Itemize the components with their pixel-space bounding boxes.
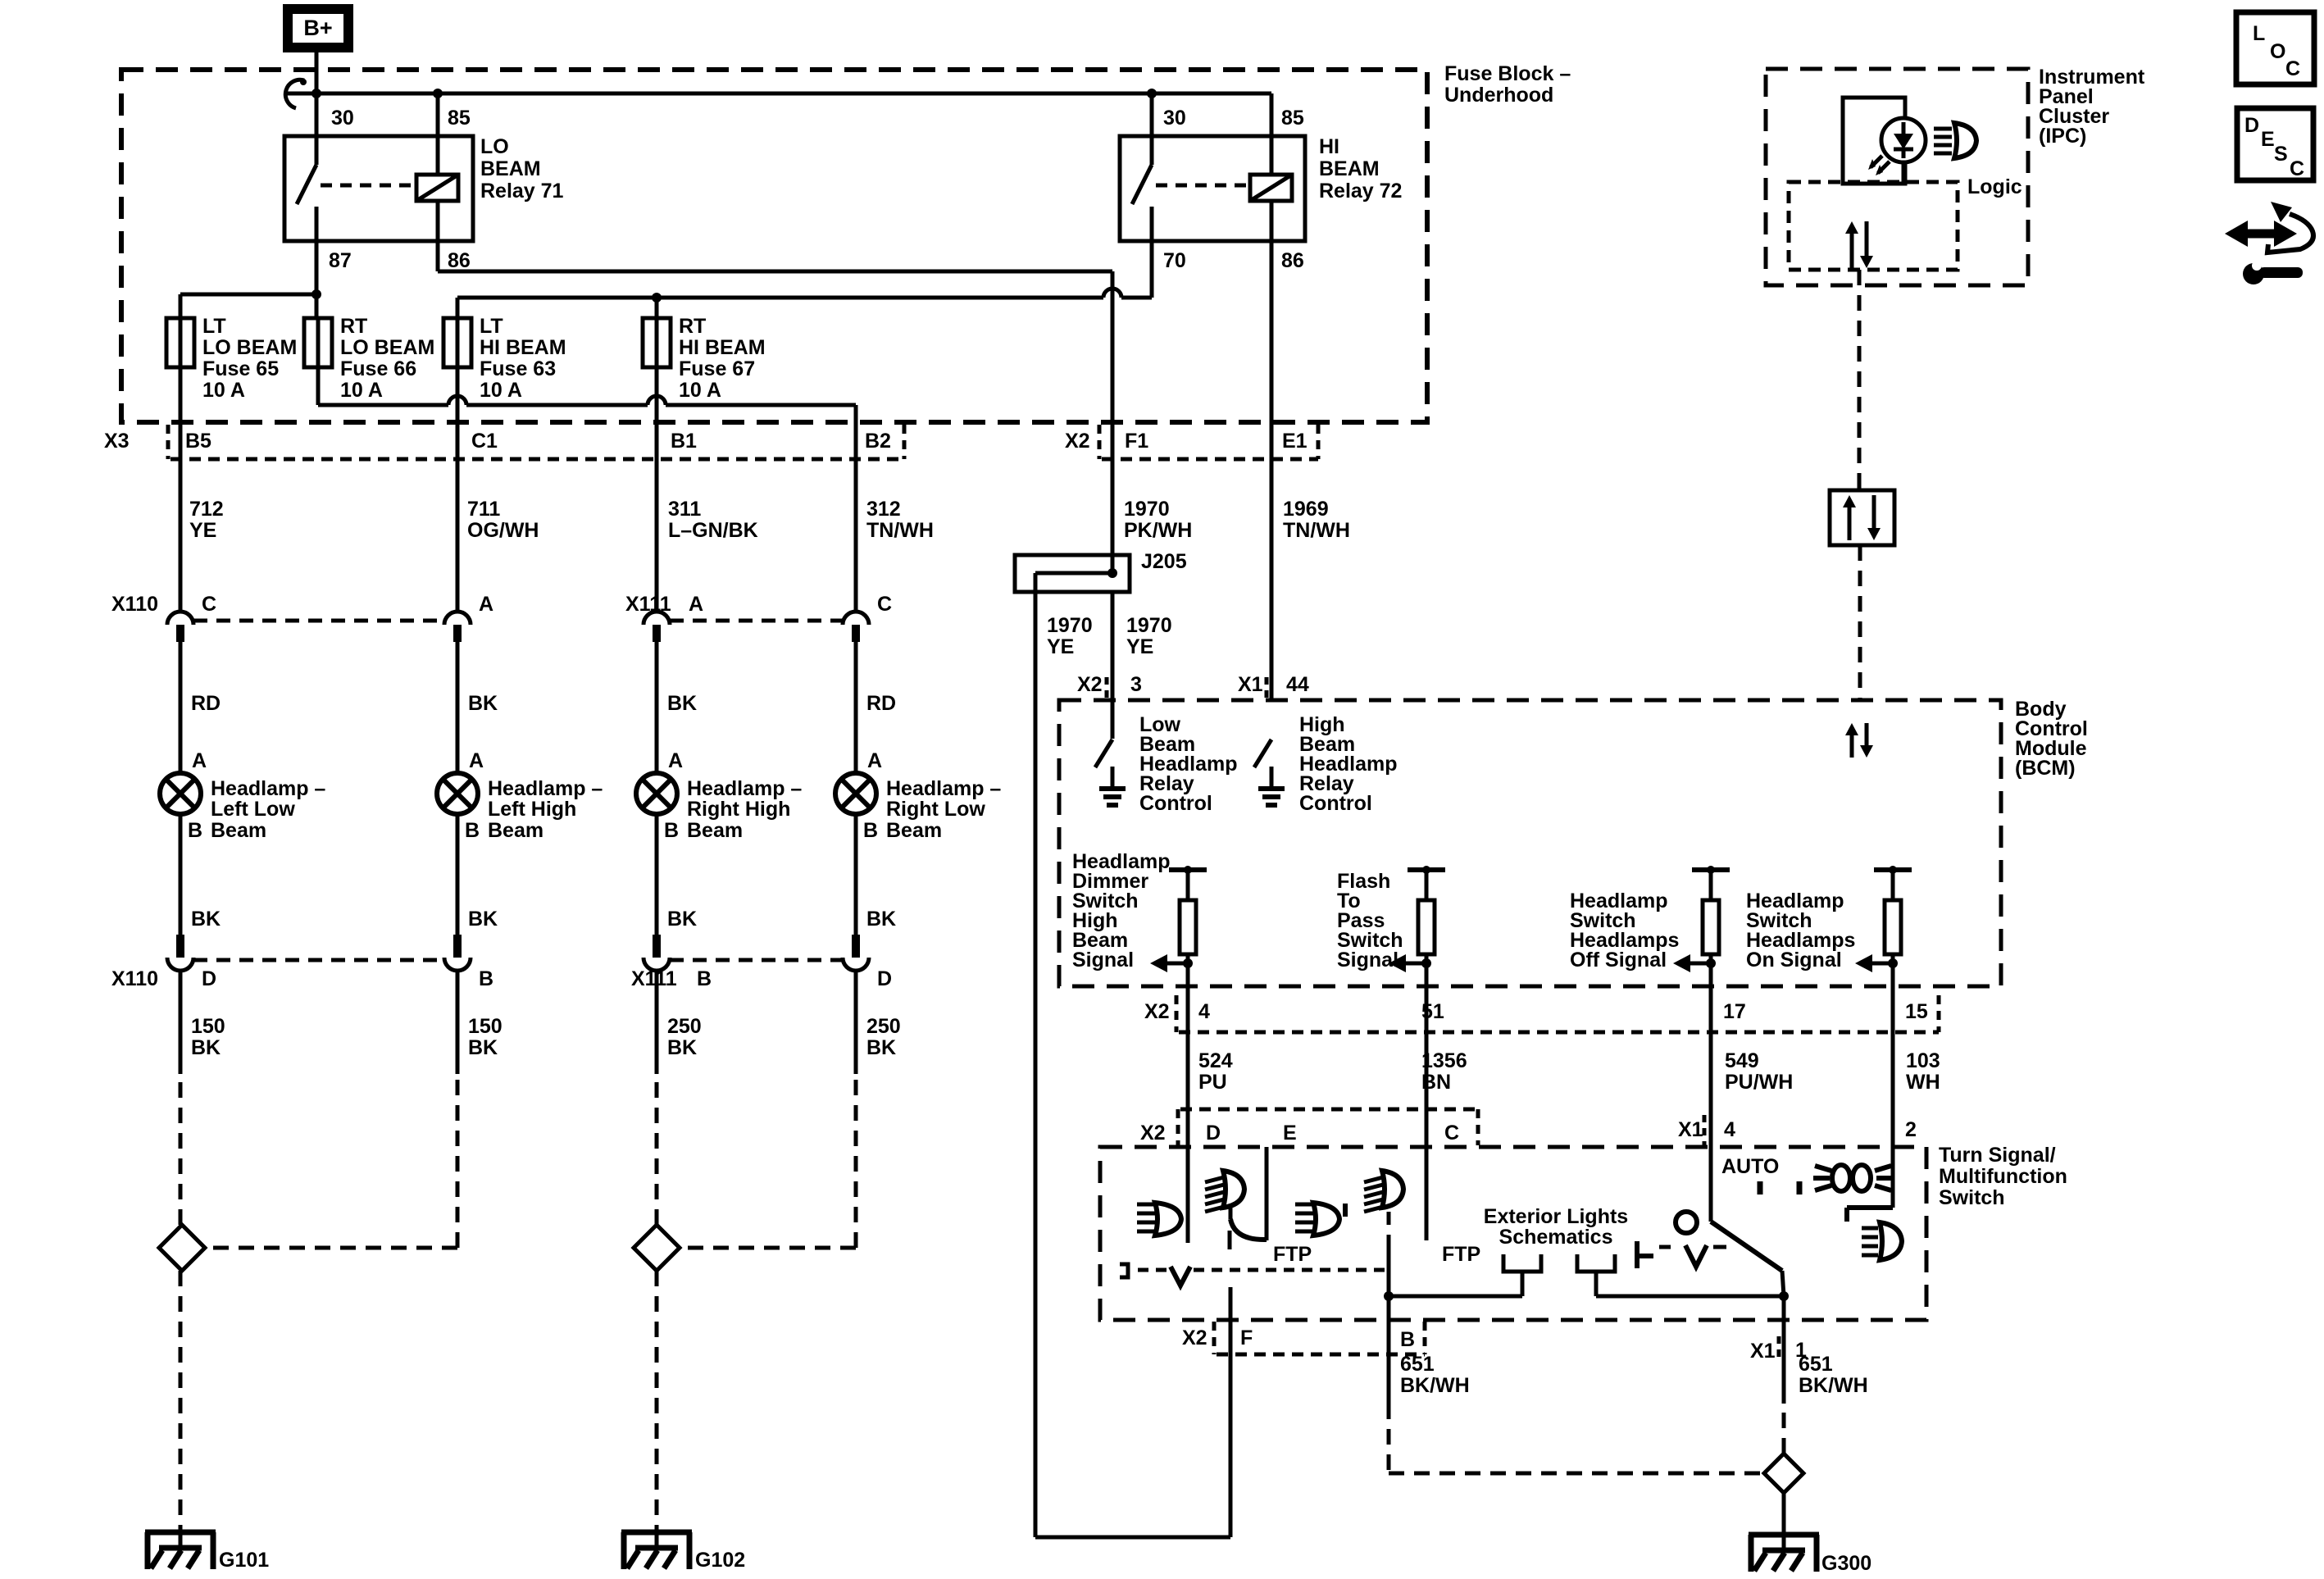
circuit label 311 L-GN/BK <box>668 498 758 542</box>
legend box DESC <box>2237 108 2313 180</box>
circuit label 1969 TN/WH <box>1283 498 1350 542</box>
svg-text:Beam: Beam <box>211 819 266 842</box>
wire relay 71 pin 87 to low beam fuses <box>180 241 321 318</box>
BCM pull-up resistor: headlamp dimmer high beam signal <box>1150 866 1207 972</box>
svg-text:Control: Control <box>1139 792 1212 815</box>
dimmer switch contact line <box>1138 1268 1385 1272</box>
wire 1356 BN to switch pin C <box>1425 963 1429 1240</box>
wire LED to logic <box>1902 162 1906 182</box>
circuit label 312 TN/WH <box>866 498 934 542</box>
svg-text:2: 2 <box>1905 1118 1917 1141</box>
connector X11x top terminal (right low beam) <box>843 612 869 625</box>
IPC indicator driver box <box>1843 98 1905 184</box>
svg-text:B: B <box>863 819 878 842</box>
splice (651 BK/WH) <box>1764 1454 1803 1493</box>
svg-text:Beam: Beam <box>488 819 543 842</box>
wire splice to G300 <box>1782 1493 1786 1550</box>
svg-text:85: 85 <box>1281 107 1304 130</box>
svg-text:A: A <box>668 749 683 772</box>
svg-text:Signal: Signal <box>1337 949 1398 972</box>
off-page connector (exterior lights 1) <box>1503 1254 1541 1296</box>
svg-text:LT: LT <box>480 315 503 338</box>
svg-text:F1: F1 <box>1125 430 1148 453</box>
svg-text:Fuse Block –: Fuse Block – <box>1444 62 1571 85</box>
svg-text:Underhood: Underhood <box>1444 84 1553 107</box>
svg-text:BK: BK <box>468 692 498 715</box>
svg-text:Headlamp –: Headlamp – <box>886 777 1001 800</box>
svg-text:44: 44 <box>1286 673 1309 696</box>
svg-text:OG/WH: OG/WH <box>467 519 539 542</box>
icon low beam (dimmer left) <box>1137 1203 1181 1235</box>
BCM connector labels X1 44 <box>1238 673 1309 698</box>
connector X3 row <box>168 425 904 459</box>
svg-text:10 A: 10 A <box>679 379 721 402</box>
svg-text:RT: RT <box>679 315 706 338</box>
wire 150 BK left low to splice <box>179 1074 183 1225</box>
svg-text:Headlamp –: Headlamp – <box>488 777 603 800</box>
BCM high beam relay driver switch <box>1254 739 1285 805</box>
svg-text:Relay 71: Relay 71 <box>480 180 564 202</box>
connector X111 top row dashed line <box>670 619 843 623</box>
relay 71 LO BEAM box <box>284 136 473 241</box>
svg-text:B: B <box>1400 1328 1415 1351</box>
svg-text:BK: BK <box>866 908 896 931</box>
svg-text:85: 85 <box>448 107 471 130</box>
wire ground circuit 250 BK <box>854 971 858 1074</box>
label HI BEAM Relay 72 <box>1319 135 1402 202</box>
svg-text:X2: X2 <box>1140 1122 1166 1144</box>
bulb headlamp right high beam <box>636 773 677 814</box>
svg-text:Logic: Logic <box>1967 175 2022 198</box>
svg-text:PU: PU <box>1198 1071 1227 1094</box>
circuit label 524 PU <box>1198 1049 1233 1094</box>
svg-text:150: 150 <box>191 1015 225 1038</box>
fuse block - underhood outline <box>121 70 1427 422</box>
svg-text:D: D <box>1206 1122 1221 1144</box>
wire switch pin E stub <box>1265 1147 1269 1240</box>
svg-text:X110: X110 <box>111 967 158 990</box>
wire BK from lamp right low beam <box>854 814 858 935</box>
svg-text:Fuse 65: Fuse 65 <box>202 357 279 380</box>
BCM pull-up resistor: headlamps off signal <box>1673 866 1730 972</box>
connector labels X1 4 (switch) <box>1678 1115 1735 1145</box>
label LO BEAM Relay 71 <box>480 135 564 202</box>
svg-text:X2: X2 <box>1065 430 1090 453</box>
svg-text:RD: RD <box>866 692 896 715</box>
svg-text:C1: C1 <box>471 430 498 453</box>
svg-text:C: C <box>202 593 216 616</box>
svg-text:1970: 1970 <box>1124 498 1170 521</box>
flash-to-pass lever arc <box>1230 1208 1267 1249</box>
svg-text:LO: LO <box>480 135 509 158</box>
svg-text:C: C <box>2285 57 2300 80</box>
fusible-link hook at B+ node <box>285 79 307 108</box>
svg-text:B+: B+ <box>303 16 332 40</box>
svg-text:A: A <box>689 593 703 616</box>
svg-text:1970: 1970 <box>1047 614 1093 637</box>
wire relay 72 pin 70 to high beam fuses <box>457 241 1152 318</box>
svg-text:B5: B5 <box>185 430 211 453</box>
svg-text:FTP: FTP <box>1442 1243 1480 1266</box>
svg-text:A: A <box>479 593 493 616</box>
circuit label 1970 YE (left) <box>1047 614 1093 658</box>
ground G102 <box>621 1532 692 1569</box>
svg-text:Control: Control <box>1299 792 1372 815</box>
svg-text:BK/WH: BK/WH <box>1799 1374 1868 1397</box>
headlamp switch contact dashes <box>1659 1245 1726 1249</box>
svg-text:BK: BK <box>667 692 697 715</box>
svg-text:TN/WH: TN/WH <box>866 519 934 542</box>
wire pin 2 contact <box>1847 1208 1893 1222</box>
switch position O (off) <box>1676 1212 1697 1233</box>
connector X110 top row dashed line <box>193 619 444 623</box>
IPC logic box <box>1789 182 1958 270</box>
connector bottom terminal (left low beam) <box>176 935 184 958</box>
wire ground circuit 150 BK <box>179 971 183 1074</box>
label Flash To Pass Switch Signal <box>1337 870 1403 972</box>
svg-text:X111: X111 <box>625 593 671 616</box>
svg-text:15: 15 <box>1905 1000 1928 1023</box>
svg-text:10 A: 10 A <box>340 379 383 402</box>
relay 71 switch <box>297 136 316 241</box>
svg-text:YE: YE <box>189 519 216 542</box>
label Body Control Module (BCM) <box>2015 698 2088 780</box>
svg-text:J205: J205 <box>1141 550 1187 573</box>
svg-text:FTP: FTP <box>1273 1243 1312 1266</box>
svg-text:LO BEAM: LO BEAM <box>340 336 434 359</box>
svg-text:BK: BK <box>667 908 697 931</box>
circuit label 1970 PK/WH <box>1124 498 1192 542</box>
circuit label 711 OG/WH <box>467 498 539 542</box>
circuit label 549 PU/WH <box>1725 1049 1793 1094</box>
fuse 65 LT LO BEAM 10A <box>166 318 194 367</box>
svg-text:Fuse 67: Fuse 67 <box>679 357 755 380</box>
wire splice to G101 <box>179 1271 183 1532</box>
svg-text:C: C <box>2290 157 2304 180</box>
svg-text:87: 87 <box>329 249 352 272</box>
svg-text:A: A <box>192 749 207 772</box>
svg-text:70: 70 <box>1163 249 1186 272</box>
svg-text:X1: X1 <box>1678 1118 1703 1141</box>
svg-text:Left High: Left High <box>488 798 576 821</box>
svg-text:LO BEAM: LO BEAM <box>202 336 297 359</box>
label Exterior Lights Schematics <box>1484 1205 1628 1249</box>
headlamp switch blade (AUTO) <box>1711 1222 1784 1296</box>
circuit label 651 BK/WH (right) <box>1799 1353 1868 1397</box>
connector X110 bottom row dashed line <box>193 958 444 962</box>
svg-text:TN/WH: TN/WH <box>1283 519 1350 542</box>
svg-text:BK: BK <box>191 1036 221 1059</box>
svg-text:HI: HI <box>1319 135 1339 158</box>
headlamp switch contact bracket <box>1637 1241 1653 1268</box>
ground G300 <box>1749 1535 1819 1572</box>
label High Beam Headlamp Relay Control <box>1299 713 1397 815</box>
icon high beam (IPC) <box>1934 123 1976 158</box>
svg-text:O: O <box>2270 40 2285 63</box>
bulb headlamp left high beam <box>437 773 478 814</box>
wire RD to lamp left low beam <box>179 642 183 773</box>
svg-text:L–GN/BK: L–GN/BK <box>668 519 758 542</box>
svg-text:RD: RD <box>191 692 221 715</box>
svg-text:103: 103 <box>1906 1049 1940 1072</box>
svg-text:Left Low: Left Low <box>211 798 295 821</box>
svg-text:G101: G101 <box>219 1549 269 1572</box>
IPC logic serial data symbol <box>1845 221 1873 268</box>
wire 524 PU to switch pin D <box>1186 963 1190 1243</box>
svg-text:311: 311 <box>668 498 701 521</box>
svg-text:D: D <box>877 967 892 990</box>
icon flash (parade) <box>1813 1165 1893 1191</box>
svg-text:On Signal: On Signal <box>1746 949 1842 972</box>
label Turn Signal/Multifunction Switch <box>1939 1144 2067 1209</box>
fuse 67 label <box>679 315 766 402</box>
svg-text:G300: G300 <box>1821 1552 1871 1575</box>
svg-text:Headlamp –: Headlamp – <box>211 777 325 800</box>
wire splice to G102 <box>655 1271 659 1532</box>
relay 71 coil <box>321 93 458 271</box>
svg-text:A: A <box>469 749 484 772</box>
svg-text:BK: BK <box>191 908 221 931</box>
ground G101 <box>145 1532 216 1569</box>
off-page connector (exterior lights 2) <box>1577 1254 1615 1296</box>
wire BK from lamp left high beam <box>456 814 460 935</box>
icon low beam (dimmer right) <box>1295 1203 1339 1235</box>
wire 1970 YE J205 to BCM X2-3 <box>1111 592 1115 739</box>
fuse 66 RT LO BEAM 10A <box>304 318 332 367</box>
wire 250 BK right high to splice <box>655 1074 659 1225</box>
wire 1970 YE J205 to multifunction switch <box>1034 573 1038 1537</box>
wire fuse 67 to connector X3-B1 <box>655 367 659 612</box>
svg-text:150: 150 <box>468 1015 503 1038</box>
svg-text:S: S <box>2274 143 2288 166</box>
svg-text:E1: E1 <box>1282 430 1308 453</box>
svg-text:10 A: 10 A <box>480 379 522 402</box>
connector X11x top terminal (left low beam) <box>167 612 193 625</box>
wire 651 BK/WH bus in switch <box>1389 1291 1789 1301</box>
svg-text:X2: X2 <box>1077 673 1103 696</box>
svg-text:HI BEAM: HI BEAM <box>480 336 566 359</box>
svg-text:B: B <box>664 819 679 842</box>
wire fuse 65 to connector X3-B5 <box>179 367 183 612</box>
svg-text:4: 4 <box>1724 1118 1735 1141</box>
wire 651 BK/WH pin X1-1 to splice <box>1782 1296 1786 1454</box>
svg-text:BEAM: BEAM <box>1319 157 1380 180</box>
svg-text:711: 711 <box>467 498 500 521</box>
label Headlamp Switch Headlamps On Signal <box>1746 890 1855 972</box>
connector bottom terminal (left high beam) <box>453 935 462 958</box>
wire high beam icon to pin B <box>1384 1212 1394 1404</box>
bulb headlamp right low beam <box>835 773 876 814</box>
wire 549 PU/WH to switch pin X1-4 <box>1709 963 1713 1222</box>
headlamp switch wiper V <box>1685 1245 1707 1267</box>
svg-text:651: 651 <box>1400 1353 1435 1376</box>
icon headlamps on <box>1862 1222 1902 1260</box>
node: battery feed bus <box>286 89 1271 98</box>
svg-text:B: B <box>697 967 712 990</box>
fuse 65 label <box>202 315 297 402</box>
power symbol B+ <box>288 9 348 48</box>
BCM low beam relay driver switch <box>1095 739 1126 805</box>
svg-text:250: 250 <box>866 1015 901 1038</box>
svg-text:30: 30 <box>331 107 354 130</box>
circuit label 103 WH <box>1906 1049 1940 1094</box>
fuse 63 label <box>480 315 566 402</box>
fuse 63 LT HI BEAM 10A <box>443 318 471 367</box>
svg-text:B: B <box>465 819 480 842</box>
wire BK from lamp left low beam <box>179 814 183 935</box>
svg-text:(BCM): (BCM) <box>2015 757 2076 780</box>
svg-text:10 A: 10 A <box>202 379 245 402</box>
BCM serial data symbol <box>1845 723 1873 758</box>
relay 72 switch <box>1132 93 1152 241</box>
svg-text:3: 3 <box>1130 673 1142 696</box>
svg-text:Headlamp –: Headlamp – <box>687 777 802 800</box>
wire ground circuit 250 BK <box>655 971 659 1074</box>
svg-text:712: 712 <box>189 498 224 521</box>
svg-text:Turn Signal/: Turn Signal/ <box>1939 1144 2056 1167</box>
dimmer switch wiper V <box>1171 1267 1190 1285</box>
splice (250 BK) <box>634 1225 680 1271</box>
label headlamp right low beam <box>886 777 1001 842</box>
svg-text:X1: X1 <box>1750 1340 1776 1363</box>
svg-text:E: E <box>2261 128 2275 151</box>
icon high beam (dimmer right) <box>1364 1171 1403 1212</box>
svg-text:YE: YE <box>1126 635 1153 658</box>
svg-text:B: B <box>479 967 493 990</box>
switch connector row X2 F B <box>1214 1322 1425 1354</box>
svg-text:B: B <box>188 819 202 842</box>
svg-text:A: A <box>867 749 882 772</box>
svg-text:X2: X2 <box>1182 1326 1207 1349</box>
relay 72 coil <box>1156 93 1292 201</box>
dimmer switch contact bracket <box>1120 1264 1128 1277</box>
svg-text:86: 86 <box>1281 249 1304 272</box>
wire BK to lamp right high beam <box>655 642 659 773</box>
circuit label 150 BK <box>191 1015 225 1059</box>
svg-text:B1: B1 <box>671 430 697 453</box>
svg-text:D: D <box>202 967 216 990</box>
wire relay 72 pin 86 to connector E1 <box>1270 201 1274 700</box>
svg-text:Relay 72: Relay 72 <box>1319 180 1402 202</box>
label Headlamp Switch Headlamps Off Signal <box>1570 890 1679 972</box>
wire B+ vertical to relay 71 pin 30 <box>315 52 319 136</box>
svg-text:(IPC): (IPC) <box>2039 125 2086 148</box>
switch connector row X2 D E C <box>1178 1109 1478 1145</box>
svg-text:BK: BK <box>667 1036 697 1059</box>
legend service info icon <box>2225 202 2313 284</box>
svg-text:BK: BK <box>468 908 498 931</box>
svg-text:Beam: Beam <box>687 819 743 842</box>
svg-text:Signal: Signal <box>1072 949 1134 972</box>
legend box LOC <box>2236 12 2314 84</box>
BCM bottom connector row X2/X1 <box>1176 995 1939 1032</box>
svg-text:L: L <box>2253 22 2265 45</box>
svg-text:1970: 1970 <box>1126 614 1172 637</box>
splice (150 BK) <box>159 1225 205 1271</box>
wire BK from lamp right high beam <box>655 814 659 935</box>
turn signal / multifunction switch outline <box>1100 1147 1926 1320</box>
label Headlamp Dimmer Switch High Beam Signal <box>1072 850 1170 972</box>
connector X11x top terminal (right high beam) <box>644 612 670 625</box>
circuit label 250 BK <box>866 1015 901 1059</box>
fuse 66 label <box>340 315 434 402</box>
svg-text:Beam: Beam <box>886 819 942 842</box>
svg-text:E: E <box>1283 1122 1297 1144</box>
svg-text:BK/WH: BK/WH <box>1400 1374 1470 1397</box>
svg-text:524: 524 <box>1198 1049 1233 1072</box>
svg-text:RT: RT <box>340 315 367 338</box>
svg-text:C: C <box>877 593 892 616</box>
data gateway box <box>1830 490 1894 545</box>
svg-text:Multifunction: Multifunction <box>1939 1165 2067 1188</box>
switch position ticks <box>1760 1181 1799 1194</box>
wire 1970 PK/WH connector F1 to splice J205 <box>1111 271 1115 573</box>
svg-text:4: 4 <box>1198 1000 1210 1023</box>
serial data link IPC to gateway <box>1858 270 1862 490</box>
svg-text:C: C <box>1444 1122 1459 1144</box>
svg-text:HI BEAM: HI BEAM <box>679 336 766 359</box>
svg-text:X111: X111 <box>631 967 677 990</box>
wire 651 BK/WH pin B to splice <box>1389 1404 1764 1473</box>
svg-text:D: D <box>2244 114 2259 137</box>
circuit label 651 BK/WH (left) <box>1400 1353 1470 1397</box>
svg-text:X110: X110 <box>111 593 158 616</box>
serial data link gateway to BCM <box>1858 545 1862 700</box>
svg-text:BEAM: BEAM <box>480 157 541 180</box>
label headlamp left low beam <box>211 777 325 842</box>
wire ground circuit 150 BK <box>456 971 460 1074</box>
svg-text:549: 549 <box>1725 1049 1759 1072</box>
switch position tick (dimmer) <box>1343 1204 1348 1217</box>
svg-text:Schematics: Schematics <box>1499 1226 1613 1249</box>
svg-text:312: 312 <box>866 498 901 521</box>
svg-text:F: F <box>1240 1326 1253 1349</box>
connector labels X1 1 (switch bottom) <box>1750 1336 1807 1363</box>
connector X111 bottom row dashed line <box>670 958 843 962</box>
svg-text:17: 17 <box>1723 1000 1746 1023</box>
wire 103 WH to switch pin X1-2 <box>1891 963 1895 1208</box>
label Fuse Block - Underhood <box>1444 62 1571 107</box>
label headlamp right high beam <box>687 777 802 842</box>
connector bottom terminal (right high beam) <box>653 935 661 958</box>
svg-text:Fuse 63: Fuse 63 <box>480 357 556 380</box>
svg-text:Fuse 66: Fuse 66 <box>340 357 416 380</box>
bulb headlamp left low beam <box>160 773 201 814</box>
circuit label 250 BK <box>667 1015 702 1059</box>
instrument panel cluster outline <box>1766 69 2028 285</box>
circuit label 1970 YE (right) <box>1126 614 1172 658</box>
svg-text:Switch: Switch <box>1939 1186 2005 1209</box>
wire 250 BK right low to splice <box>680 1074 856 1248</box>
circuit label 1356 BN <box>1421 1049 1467 1094</box>
svg-text:1969: 1969 <box>1283 498 1329 521</box>
wire fuse 63 to connector X3-C1 <box>456 367 460 612</box>
wire RD to lamp right low beam <box>854 642 858 773</box>
svg-text:Right High: Right High <box>687 798 790 821</box>
connector X11x top terminal (left high beam) <box>444 612 471 625</box>
label headlamp left high beam <box>488 777 603 842</box>
svg-text:X1: X1 <box>1238 673 1263 696</box>
svg-text:BK: BK <box>468 1036 498 1059</box>
splice pack J205 <box>1015 555 1130 592</box>
connector X2 row (fuse block) <box>1099 425 1318 459</box>
IPC high beam indicator LED <box>1868 118 1926 175</box>
svg-text:BK: BK <box>866 1036 896 1059</box>
wire 150 BK left high to splice <box>205 1074 457 1248</box>
svg-text:WH: WH <box>1906 1071 1940 1094</box>
fuse 67 RT HI BEAM 10A <box>643 318 671 367</box>
relay 72 HI BEAM box <box>1120 136 1305 241</box>
